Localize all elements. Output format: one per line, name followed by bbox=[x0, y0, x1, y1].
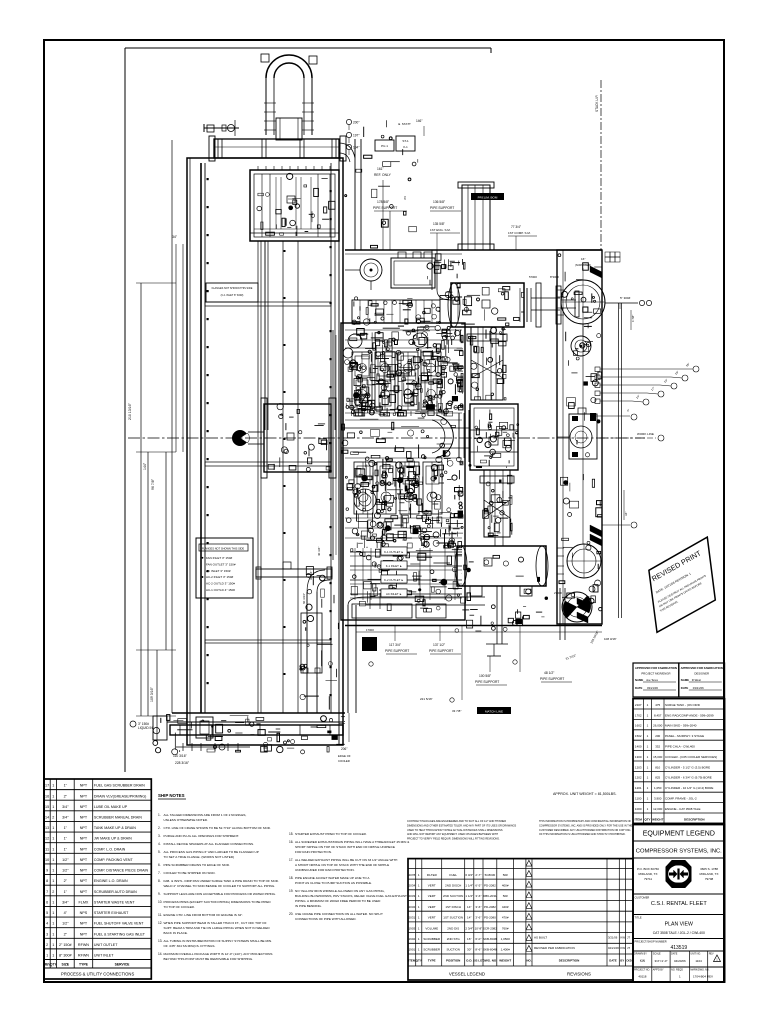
svg-text:760#: 760# bbox=[502, 926, 509, 930]
svg-text:14.: 14. bbox=[158, 952, 163, 956]
svg-text:1,400#: 1,400# bbox=[501, 948, 511, 952]
svg-text:136 5/8": 136 5/8" bbox=[433, 200, 446, 204]
svg-text:15.: 15. bbox=[289, 832, 294, 836]
svg-text:04/20/06: 04/20/06 bbox=[674, 959, 686, 963]
svg-text:OF THIS INFORMATION IS UNAUTHO: OF THIS INFORMATION IS UNAUTHORIZED AND … bbox=[539, 833, 626, 836]
svg-text:48 1/2": 48 1/2" bbox=[544, 671, 555, 675]
svg-text:117 3/4": 117 3/4" bbox=[389, 643, 402, 647]
svg-text:DATE: DATE bbox=[609, 959, 617, 963]
svg-text:77 3/4": 77 3/4" bbox=[511, 225, 521, 229]
svg-text:QTY: QTY bbox=[416, 959, 422, 963]
svg-text:1: 1 bbox=[52, 954, 54, 958]
svg-text:6 3/4": 6 3/4" bbox=[465, 873, 473, 877]
svg-text:VOLUME: VOLUME bbox=[425, 926, 438, 930]
svg-text:UNOBSCURED FOR RAIN PROTECTION: UNOBSCURED FOR RAIN PROTECTION. bbox=[295, 868, 355, 872]
svg-text:DIMENSIONS AND OTHER ESTIMATED: DIMENSIONS AND OTHER ESTIMATED TOLER. AN… bbox=[407, 824, 517, 827]
svg-text:MIDLAND, TX: MIDLAND, TX bbox=[639, 872, 658, 876]
svg-text:1: 1 bbox=[52, 932, 54, 936]
svg-text:6.: 6. bbox=[158, 863, 161, 867]
svg-text:FLANGES NOT SHOWN THIS SIDE: FLANGES NOT SHOWN THIS SIDE bbox=[212, 287, 253, 290]
svg-text:14": 14" bbox=[467, 916, 471, 920]
svg-text:2'-7": 2'-7" bbox=[475, 873, 481, 877]
svg-text:MIDLAND, TX: MIDLAND, TX bbox=[700, 872, 719, 876]
svg-text:36 3/4": 36 3/4" bbox=[309, 571, 313, 580]
svg-text:FUEL SHUTOFF VALVE VENT: FUEL SHUTOFF VALVE VENT bbox=[94, 922, 144, 926]
svg-text:1: 1 bbox=[52, 858, 54, 862]
svg-text:FUEL & STARTING GAS INLET: FUEL & STARTING GAS INLET bbox=[94, 932, 146, 936]
svg-text:C.S.I. RENTAL FLEET: C.S.I. RENTAL FLEET bbox=[651, 901, 708, 907]
svg-text:1,050: 1,050 bbox=[654, 786, 662, 790]
svg-text:SUCTION: SUCTION bbox=[446, 948, 460, 952]
svg-text:40 3/4": 40 3/4" bbox=[317, 547, 321, 556]
svg-text:VERT: VERT bbox=[428, 884, 436, 888]
svg-text:3.: 3. bbox=[158, 834, 161, 838]
svg-text:NPT: NPT bbox=[80, 784, 88, 788]
svg-text:197": 197" bbox=[353, 134, 359, 138]
svg-text:20.: 20. bbox=[289, 912, 294, 916]
svg-text:352: 352 bbox=[655, 744, 660, 748]
svg-text:1300: 1300 bbox=[635, 755, 642, 759]
svg-text:PD-2082: PD-2082 bbox=[484, 884, 496, 888]
svg-text:COOLER - [C05 COOLER SERVICES]: COOLER - [C05 COOLER SERVICES] bbox=[665, 755, 717, 759]
svg-text:2107: 2107 bbox=[635, 703, 642, 707]
svg-text:DESCRIPTION: DESCRIPTION bbox=[559, 959, 580, 963]
svg-text:NPT: NPT bbox=[80, 815, 88, 819]
svg-text:1: 1 bbox=[52, 879, 54, 883]
svg-text:4.: 4. bbox=[158, 842, 161, 846]
svg-text:34": 34" bbox=[624, 512, 628, 516]
svg-text:NPT: NPT bbox=[80, 869, 88, 873]
svg-text:6'-5": 6'-5" bbox=[475, 884, 481, 888]
svg-text:146": 146" bbox=[416, 119, 422, 123]
svg-text:TITLE: TITLE bbox=[635, 916, 642, 920]
svg-text:178 5/8": 178 5/8" bbox=[377, 200, 390, 204]
svg-text:AC-1 OUTLD 4" 150#: AC-1 OUTLD 4" 150# bbox=[206, 588, 235, 592]
svg-text:NPT: NPT bbox=[80, 922, 88, 926]
svg-text:PROJECT/SHOP NUMBER: PROJECT/SHOP NUMBER bbox=[635, 940, 667, 944]
svg-text:100 5/8": 100 5/8" bbox=[479, 674, 492, 678]
svg-text:3'-6": 3'-6" bbox=[475, 894, 481, 898]
svg-text:IN PIPE BENDING.: IN PIPE BENDING. bbox=[295, 904, 322, 908]
svg-text:2031: 2031 bbox=[409, 916, 416, 920]
svg-text:NPS: NPS bbox=[80, 911, 88, 915]
svg-text:NAME: NAME bbox=[635, 678, 643, 682]
svg-text:2034: 2034 bbox=[409, 884, 416, 888]
svg-text:BY: BY bbox=[620, 959, 624, 963]
svg-text:DATE: DATE bbox=[681, 686, 689, 690]
svg-text:2ND STG: 2ND STG bbox=[447, 937, 461, 941]
svg-text:NPT: NPT bbox=[80, 794, 88, 798]
svg-text:PROJECT MGR/ENGR: PROJECT MGR/ENGR bbox=[641, 672, 670, 676]
svg-text:2ND DIS: 2ND DIS bbox=[447, 926, 459, 930]
svg-text:1602: 1602 bbox=[635, 724, 642, 728]
svg-text:228 3/16": 228 3/16" bbox=[175, 761, 190, 765]
svg-text:440#: 440# bbox=[502, 905, 509, 909]
svg-text:33 7/8": 33 7/8" bbox=[452, 709, 461, 713]
svg-text:1: 1 bbox=[52, 837, 54, 841]
svg-text:400#: 400# bbox=[502, 884, 509, 888]
svg-text:CYLINDER - 6 3/4" G (9.79) BOR: CYLINDER - 6 3/4" G (9.79) BORE bbox=[665, 776, 712, 780]
svg-text:03/21/06: 03/21/06 bbox=[693, 686, 704, 690]
svg-text:VERT: VERT bbox=[428, 894, 436, 898]
svg-text:CYLINDER - 5 1/2" G (3.5) BORE: CYLINDER - 5 1/2" G (3.5) BORE bbox=[665, 765, 710, 769]
svg-text:17: 17 bbox=[45, 784, 49, 788]
svg-text:5C8030: 5C8030 bbox=[485, 873, 496, 877]
svg-text:13: 13 bbox=[45, 826, 49, 830]
svg-text:SCRUBBER: SCRUBBER bbox=[423, 948, 441, 952]
svg-text:1: 1 bbox=[52, 826, 54, 830]
svg-text:SUPT. BEAM A TRIM AND TIE ON L: SUPT. BEAM A TRIM AND TIE ON LARGE PIPIN… bbox=[164, 926, 271, 930]
svg-text:NPT: NPT bbox=[80, 858, 88, 862]
svg-text:161": 161" bbox=[377, 167, 385, 171]
svg-text:PD-2082: PD-2082 bbox=[484, 905, 496, 909]
svg-text:8'-6": 8'-6" bbox=[475, 948, 481, 952]
svg-text:1: 1 bbox=[52, 847, 54, 851]
svg-text:COMPRESSOR SYSTEMS, INC. AND I: COMPRESSOR SYSTEMS, INC. AND IS PROVIDED… bbox=[539, 824, 633, 827]
svg-text:DATE: DATE bbox=[671, 953, 678, 956]
svg-text:SCRUBBER AUTO DRAIN: SCRUBBER AUTO DRAIN bbox=[94, 890, 137, 894]
svg-text:DRAIN VLV(GREASE/PRIMING): DRAIN VLV(GREASE/PRIMING) bbox=[94, 794, 146, 798]
svg-text:1700#: 1700# bbox=[366, 628, 374, 632]
svg-text:PROJECT NO.: PROJECT NO. bbox=[634, 969, 650, 972]
svg-text:K-1: K-1 bbox=[403, 145, 408, 149]
svg-text:1ST COMP. S.M.: 1ST COMP. S.M. bbox=[508, 231, 531, 235]
svg-text:8.: 8. bbox=[158, 879, 161, 883]
svg-text:JW MAKE UP & DRAIN: JW MAKE UP & DRAIN bbox=[94, 837, 132, 841]
svg-text:K-1 INLET ►: K-1 INLET ► bbox=[386, 564, 403, 568]
svg-text:2033: 2033 bbox=[409, 894, 416, 898]
svg-text:PROCESS & UTILITY CONNECTIONS: PROCESS & UTILITY CONNECTIONS bbox=[61, 972, 134, 977]
svg-text:60 3/16": 60 3/16" bbox=[302, 593, 306, 604]
svg-text:MARK/DWG. NO.: MARK/DWG. NO. bbox=[690, 969, 709, 972]
svg-text:19.: 19. bbox=[289, 889, 294, 893]
svg-text:1704-B04 REV: 1704-B04 REV bbox=[693, 975, 713, 979]
svg-text:NPT: NPT bbox=[80, 837, 88, 841]
svg-text:1901: 1901 bbox=[409, 948, 416, 952]
svg-text:144": 144" bbox=[143, 462, 147, 470]
svg-text:WHEN PIPE SUPPORT BEAM IS TALL: WHEN PIPE SUPPORT BEAM IS TALLER THAN 6 … bbox=[164, 921, 267, 925]
svg-text:1: 1 bbox=[46, 954, 48, 958]
svg-text:SHORT NIPPLE ON TOP OF STACK W: SHORT NIPPLE ON TOP OF STACK WITH END OF… bbox=[295, 845, 395, 849]
svg-text:3605 S. 1788: 3605 S. 1788 bbox=[700, 867, 718, 871]
svg-text:APPROX. UNIT WEIGHT = 81,500LB: APPROX. UNIT WEIGHT = 81,500LBS. bbox=[553, 792, 616, 796]
svg-text:18.: 18. bbox=[289, 876, 294, 880]
svg-text:16.: 16. bbox=[289, 840, 294, 844]
svg-text:SCALE: SCALE bbox=[653, 953, 661, 956]
svg-text:15,000: 15,000 bbox=[653, 755, 663, 759]
svg-text:6 7/8": 6 7/8" bbox=[631, 315, 635, 322]
svg-text:3: 3 bbox=[46, 932, 48, 936]
svg-text:221 5/16": 221 5/16" bbox=[420, 697, 433, 701]
svg-text:16: 16 bbox=[45, 794, 49, 798]
svg-text:NO.: NO. bbox=[527, 959, 532, 963]
svg-text:TO SET A TRUE FLANGE. (WORKS N: TO SET A TRUE FLANGE. (WORKS NOT LISTED) bbox=[164, 855, 235, 859]
svg-text:NPT: NPT bbox=[80, 890, 88, 894]
svg-text:REF. ONLY: REF. ONLY bbox=[374, 173, 392, 177]
svg-text:ENGINE L.O. DRAIN: ENGINE L.O. DRAIN bbox=[94, 879, 128, 883]
svg-text:BUILDING BLOWDOWNS, PRV STACKS: BUILDING BLOWDOWNS, PRV STACKS, RELIEF V… bbox=[295, 894, 407, 898]
svg-text:11: 11 bbox=[45, 847, 49, 851]
svg-text:JT: JT bbox=[627, 946, 630, 950]
svg-text:UNLESS OTHERWISE NOTED.: UNLESS OTHERWISE NOTED. bbox=[164, 818, 209, 822]
svg-text:8"300#: 8"300# bbox=[550, 275, 559, 279]
svg-text:9.: 9. bbox=[158, 892, 161, 896]
svg-text:1: 1 bbox=[52, 869, 54, 873]
svg-text:STARTER EXHAUST PIPED TO TOP O: STARTER EXHAUST PIPED TO TOP OF COOLER. bbox=[295, 832, 367, 836]
svg-text:12: 12 bbox=[45, 837, 49, 841]
svg-text:TANK MAKE UP & DRAIN: TANK MAKE UP & DRAIN bbox=[94, 826, 136, 830]
svg-text:200: 200 bbox=[655, 734, 660, 738]
svg-text:PIPING. A MINIMUM OF 200G# FR: PIPING. A MINIMUM OF 200G# FREE PERIOD T… bbox=[295, 899, 381, 903]
svg-text:1202: 1202 bbox=[635, 776, 642, 780]
svg-text:FAN INLET 3" 150#: FAN INLET 3" 150# bbox=[206, 556, 233, 560]
svg-text:1903: 1903 bbox=[409, 926, 416, 930]
svg-text:DRAWN BY: DRAWN BY bbox=[634, 953, 647, 956]
svg-text:8,457: 8,457 bbox=[654, 713, 662, 717]
svg-text:2078: 2078 bbox=[409, 873, 416, 877]
svg-text:109 3/16": 109 3/16" bbox=[150, 686, 154, 702]
svg-text:AS BUILT: AS BUILT bbox=[534, 936, 547, 940]
svg-text:CUSTOMER DESCRIBED. ANY UNAUTH: CUSTOMER DESCRIBED. ANY UNAUTHORIZED DIS… bbox=[539, 829, 631, 832]
svg-text:JT: JT bbox=[627, 936, 630, 940]
svg-text:QTY: QTY bbox=[644, 817, 650, 821]
svg-text:5.: 5. bbox=[158, 850, 161, 854]
svg-text:200": 200" bbox=[353, 121, 359, 125]
svg-text:POSITION: POSITION bbox=[446, 959, 460, 963]
svg-text:KW: KW bbox=[621, 946, 626, 950]
svg-text:PLAN VIEW: PLAN VIEW bbox=[665, 922, 693, 928]
svg-text:ALL WELDED EXHAUST PIPING WILL: ALL WELDED EXHAUST PIPING WILL BE CUT ON… bbox=[295, 858, 397, 862]
svg-text:REVISED PER FABRICATION: REVISED PER FABRICATION bbox=[534, 946, 575, 950]
svg-text:CTR. LINE OF CRANE SHOWN TO BE: CTR. LINE OF CRANE SHOWN TO BE 52.7716" … bbox=[164, 826, 271, 830]
svg-text:ST-1: ST-1 bbox=[402, 139, 409, 143]
svg-text:PIPE ENGINE JACKET WATER MAKE: PIPE ENGINE JACKET WATER MAKE UP LINE TO… bbox=[295, 876, 370, 880]
svg-text:5700#: 5700# bbox=[529, 275, 537, 279]
svg-text:VESSEL LEGEND: VESSEL LEGEND bbox=[449, 972, 485, 977]
svg-text:2032: 2032 bbox=[409, 905, 416, 909]
svg-text:FLANGES NOT SHOWN THIS SIDE: FLANGES NOT SHOWN THIS SIDE bbox=[202, 547, 245, 551]
svg-text:4: 4 bbox=[46, 922, 48, 926]
svg-text:2.: 2. bbox=[158, 826, 161, 830]
svg-text:CKD: CKD bbox=[626, 959, 632, 963]
svg-text:NPT: NPT bbox=[80, 826, 88, 830]
svg-text:STARTER WASTE VENT: STARTER WASTE VENT bbox=[94, 900, 135, 904]
svg-text:AC-2 INLET 3" 150#: AC-2 INLET 3" 150# bbox=[206, 575, 234, 579]
svg-text:1104: 1104 bbox=[695, 959, 702, 963]
svg-text:1203: 1203 bbox=[635, 765, 642, 769]
svg-text:8: 8 bbox=[46, 879, 48, 883]
svg-text:16": 16" bbox=[581, 257, 585, 261]
svg-text:DB6-2031: DB6-2031 bbox=[483, 894, 497, 898]
svg-text:DESIGNER: DESIGNER bbox=[694, 672, 709, 676]
svg-text:6: 6 bbox=[46, 900, 48, 904]
svg-text:CUSTOMER: CUSTOMER bbox=[635, 896, 650, 900]
svg-text:PROJECT TO VERIFY FIELD REQUIR: PROJECT TO VERIFY FIELD REQUIR. DIMENSIO… bbox=[407, 838, 500, 841]
svg-text:WELD 4" CHANNEL TO SKID BESIDE: WELD 4" CHANNEL TO SKID BESIDE OF COOLER… bbox=[164, 884, 276, 888]
svg-text:30": 30" bbox=[467, 948, 471, 952]
svg-text:CONTRACT PACKAGES ARE ENGINEER: CONTRACT PACKAGES ARE ENGINEERED AND TO … bbox=[407, 820, 506, 823]
svg-text:DESCRIPTION: DESCRIPTION bbox=[684, 817, 705, 821]
svg-text:3/4": 3/4" bbox=[62, 815, 69, 819]
svg-text:WEIGHT: WEIGHT bbox=[499, 959, 511, 963]
svg-text:1: 1 bbox=[52, 922, 54, 926]
svg-text:50#: 50# bbox=[503, 873, 508, 877]
svg-text:COMP. DISTANCE PIECE DRAIN: COMP. DISTANCE PIECE DRAIN bbox=[94, 869, 149, 873]
svg-text:VERT: VERT bbox=[428, 916, 436, 920]
svg-text:10.: 10. bbox=[158, 900, 163, 904]
svg-text:PIPE SUPPORT: PIPE SUPPORT bbox=[373, 206, 397, 210]
svg-text:1ST SUCTION: 1ST SUCTION bbox=[443, 916, 463, 920]
svg-text:1/2": 1/2" bbox=[62, 858, 69, 862]
svg-text:14: 14 bbox=[45, 815, 49, 819]
svg-text:1ST ENG. S.M.: 1ST ENG. S.M. bbox=[430, 228, 451, 232]
svg-text:10'-8": 10'-8" bbox=[475, 926, 483, 930]
svg-text:1: 1 bbox=[52, 794, 54, 798]
svg-text:2ND SUCTION: 2ND SUCTION bbox=[443, 894, 463, 898]
svg-text:MATCH LINE: MATCH LINE bbox=[485, 709, 503, 713]
svg-text:TYPE: TYPE bbox=[79, 963, 89, 967]
svg-text:PRELIM. BOM: PRELIM. BOM bbox=[478, 195, 498, 199]
svg-text:810: 810 bbox=[655, 765, 660, 769]
svg-text:PIPE SUPPORT: PIPE SUPPORT bbox=[430, 206, 454, 210]
svg-text:APPROVED FOR FABRICATION: APPROVED FOR FABRICATION bbox=[681, 666, 723, 670]
svg-text:03/21/06: 03/21/06 bbox=[647, 686, 658, 690]
svg-text:CAT 3508 TALE / JGL-2 / CWL400: CAT 3508 TALE / JGL-2 / CWL400 bbox=[653, 931, 705, 935]
svg-text:VERT: VERT bbox=[428, 905, 436, 909]
svg-text:194": 194" bbox=[353, 146, 359, 150]
svg-text:79708: 79708 bbox=[705, 877, 714, 881]
svg-text:COMP. FRAME - JGL-2: COMP. FRAME - JGL-2 bbox=[665, 796, 697, 800]
svg-text:40118: 40118 bbox=[638, 975, 646, 979]
svg-text:1,050#: 1,050# bbox=[501, 937, 511, 941]
svg-text:K-2 OUTLET ►: K-2 OUTLET ► bbox=[384, 578, 404, 582]
svg-text:WEIGHT: WEIGHT bbox=[652, 817, 663, 821]
svg-text:NPT: NPT bbox=[80, 847, 88, 851]
svg-text:TYPE: TYPE bbox=[428, 959, 436, 963]
svg-text:K-1 OUTLET ►: K-1 OUTLET ► bbox=[384, 550, 404, 554]
svg-text:PIPE CHLA - CWL400: PIPE CHLA - CWL400 bbox=[665, 744, 695, 748]
svg-text:2ND DISCH: 2ND DISCH bbox=[445, 884, 461, 888]
svg-text:DWG. NO.: DWG. NO. bbox=[483, 959, 497, 963]
svg-text:OF .035" 304 SS MIN(CS. FITTIN: OF .035" 304 SS MIN(CS. FITTINGS. bbox=[164, 944, 216, 948]
svg-text:UNIT NO.: UNIT NO. bbox=[690, 953, 701, 956]
svg-text:50#: 50# bbox=[503, 894, 508, 898]
svg-text:79711: 79711 bbox=[644, 877, 652, 881]
svg-text:SCRUBBER MANUAL DRAIN: SCRUBBER MANUAL DRAIN bbox=[94, 815, 142, 819]
svg-text:7.: 7. bbox=[158, 871, 161, 875]
svg-text:3/21/06: 3/21/06 bbox=[608, 936, 618, 940]
svg-text:FILTER: FILTER bbox=[427, 873, 438, 877]
svg-text:RFWN: RFWN bbox=[78, 954, 89, 958]
svg-text:3,900: 3,900 bbox=[654, 796, 662, 800]
svg-text:26,000: 26,000 bbox=[653, 724, 663, 728]
svg-text:LIQUID IN: LIQUID IN bbox=[138, 726, 153, 730]
svg-text:PROCESS PIPES (EXCEPT SUCTION: PROCESS PIPES (EXCEPT SUCTION PIPING) DI… bbox=[164, 900, 272, 904]
svg-text:1: 1 bbox=[52, 805, 54, 809]
svg-text:AC INLET 3" 150#: AC INLET 3" 150# bbox=[206, 569, 231, 573]
svg-text:KW: KW bbox=[621, 936, 626, 940]
svg-text:FUEL GAS SCRUBBER DRAIN: FUEL GAS SCRUBBER DRAIN bbox=[94, 784, 145, 788]
svg-text:96 7/8": 96 7/8" bbox=[151, 478, 155, 490]
svg-text:AND WILL NOT REPORT ANY EQUIPM: AND WILL NOT REPORT ANY EQUIPMENT. USED … bbox=[407, 833, 498, 836]
svg-text:UNIT INLET: UNIT INLET bbox=[94, 954, 114, 958]
svg-text:34": 34" bbox=[172, 235, 178, 239]
svg-text:FAB. & INSTL. DRIP PAN UNDER S: FAB. & INSTL. DRIP PAN UNDER SURGE TANK … bbox=[164, 879, 279, 883]
svg-text:SCR-2082: SCR-2082 bbox=[483, 926, 497, 930]
svg-text:COMP. L.O. DRAIN: COMP. L.O. DRAIN bbox=[94, 847, 126, 851]
svg-text:INSTALL DEVICE SPACERS AT ALL: INSTALL DEVICE SPACERS AT ALL FLANGED CO… bbox=[164, 842, 255, 846]
svg-text:NO YELLOW IRON WRINKLE ALLOWED: NO YELLOW IRON WRINKLE ALLOWED ON ANY GA… bbox=[295, 889, 385, 893]
svg-text:108 3/16": 108 3/16" bbox=[604, 637, 617, 641]
svg-text:ENGINE CTR. LINE FROM BOTTOM O: ENGINE CTR. LINE FROM BOTTOM OF ENGINE I… bbox=[164, 913, 244, 917]
svg-text:REV: REV bbox=[709, 953, 714, 956]
svg-text:USED TO HELP THROUGHOUT WHILE: USED TO HELP THROUGHOUT WHILE ACTUAL DIS… bbox=[407, 829, 503, 832]
svg-text:FUEL: FUEL bbox=[449, 873, 457, 877]
svg-text:413519: 413519 bbox=[670, 945, 687, 951]
svg-text:2: 2 bbox=[46, 943, 48, 947]
svg-text:1: 1 bbox=[52, 900, 54, 904]
svg-text:COMPRESSOR SYSTEMS, INC.: COMPRESSOR SYSTEMS, INC. bbox=[636, 849, 722, 855]
svg-text:ENG RAD/COMP ANDE - 599+2099: ENG RAD/COMP ANDE - 599+2099 bbox=[665, 713, 714, 717]
svg-text:1000: 1000 bbox=[635, 807, 642, 811]
svg-text:1.: 1. bbox=[158, 813, 161, 817]
svg-text:COOLER: COOLER bbox=[338, 759, 350, 763]
svg-text:2700#: 2700# bbox=[554, 591, 562, 595]
svg-text:APP'D BY: APP'D BY bbox=[653, 969, 664, 972]
svg-text:12.: 12. bbox=[158, 921, 163, 925]
svg-text:ENGINE - CAT 3508 TALE: ENGINE - CAT 3508 TALE bbox=[665, 807, 700, 811]
svg-text:2" 150#: 2" 150# bbox=[59, 943, 73, 947]
svg-text:6'-0": 6'-0" bbox=[475, 937, 481, 941]
svg-text:► STATT: ► STATT bbox=[398, 122, 411, 126]
svg-text:PU-1: PU-1 bbox=[381, 144, 388, 148]
svg-text:ALL SCREWED EXHAUST/DRAIN PIPI: ALL SCREWED EXHAUST/DRAIN PIPING WILL HA… bbox=[295, 840, 410, 844]
svg-text:2: 2 bbox=[52, 815, 54, 819]
svg-text:9: 9 bbox=[46, 869, 48, 873]
svg-text:470#: 470# bbox=[502, 916, 509, 920]
svg-text:PIPE SCRUBBER DRAINS TO EDGE O: PIPE SCRUBBER DRAINS TO EDGE OF SKID. bbox=[164, 863, 231, 867]
svg-text:SURGE TANK - (ON ORD: SURGE TANK - (ON ORD bbox=[665, 703, 701, 707]
svg-text:135 5/8": 135 5/8" bbox=[433, 222, 445, 226]
svg-text:KW: KW bbox=[640, 959, 645, 963]
svg-text:PURGE AND PLUG ALL OPENINGS FO: PURGE AND PLUG ALL OPENINGS FOR SHIPMENT… bbox=[164, 834, 240, 838]
svg-text:1: 1 bbox=[52, 784, 54, 788]
svg-text:3'6: 3'6 bbox=[403, 196, 407, 200]
svg-text:COMP. PACKING VENT: COMP. PACKING VENT bbox=[94, 858, 134, 862]
svg-text:NAME: NAME bbox=[681, 678, 689, 682]
svg-text:206": 206" bbox=[341, 747, 347, 751]
svg-text:14": 14" bbox=[467, 905, 471, 909]
svg-text:1100: 1100 bbox=[635, 796, 642, 800]
svg-text:WORK LINE: WORK LINE bbox=[637, 432, 654, 436]
svg-text:THIS INFORMATION IS PROPRIETAR: THIS INFORMATION IS PROPRIETARY AND CONF… bbox=[539, 820, 632, 823]
svg-text:COOLER TO BE SHIPPED ON SKID.: COOLER TO BE SHIPPED ON SKID. bbox=[164, 871, 216, 875]
svg-text:PIPE SUPPORT: PIPE SUPPORT bbox=[385, 649, 409, 653]
svg-text:210 13/16": 210 13/16" bbox=[128, 402, 132, 420]
svg-text:TO TOP OF COOLER.: TO TOP OF COOLER. bbox=[164, 905, 195, 909]
svg-text:QTY: QTY bbox=[50, 963, 57, 967]
svg-text:CONNECTIONS OF PIPE WITH ALLOW: CONNECTIONS OF PIPE WITH ALLOWED. bbox=[295, 917, 357, 921]
svg-text:2: 2 bbox=[52, 890, 54, 894]
svg-text:1/2": 1/2" bbox=[62, 922, 69, 926]
svg-text:CYLINDER - 10 1/2" G (13.4) BO: CYLINDER - 10 1/2" G (13.4) BORE bbox=[665, 786, 713, 790]
svg-text:5: 5 bbox=[46, 911, 48, 915]
svg-text:04/21/06: 04/21/06 bbox=[608, 946, 619, 950]
svg-text:REVISIONS: REVISIONS bbox=[567, 972, 591, 977]
svg-text:SUPPORT LEGS ARE NON ACCEPTABL: SUPPORT LEGS ARE NON ACCEPTABLE FOR PROC… bbox=[164, 892, 277, 896]
svg-text:1502: 1502 bbox=[635, 734, 642, 738]
svg-text:BACK IN PLACE.: BACK IN PLACE. bbox=[164, 931, 188, 935]
